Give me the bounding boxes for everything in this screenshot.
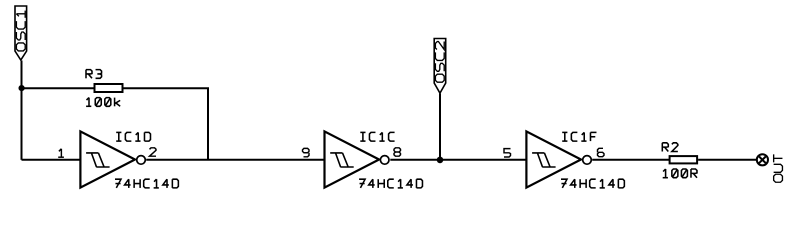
terminal circle [757, 154, 768, 165]
net name text OUT [774, 154, 783, 182]
pin number 6 (output) [598, 148, 605, 156]
inverter IC1D [58, 131, 178, 188]
resistor R3 body [95, 84, 123, 92]
flag outline [434, 39, 446, 94]
name label IC1D [116, 132, 150, 141]
resistor R3 [86, 70, 123, 107]
value label 74HC14D [115, 179, 178, 188]
net flag OSC1 [15, 6, 27, 60]
value label 74HC14D [359, 179, 422, 188]
pin number 8 (output) [394, 148, 401, 156]
terminal X mark [759, 157, 766, 164]
resistor R2 body [670, 156, 698, 163]
net flag OSC2 [434, 39, 446, 94]
pin number 1 (input) [58, 149, 64, 157]
wire OSC1 down to gate row [21, 61, 23, 160]
wire IC1C out to IC1F in [390, 159, 526, 161]
pin number 2 (output) [150, 148, 157, 156]
inverter triangle body [80, 131, 135, 187]
schmitt-trigger hysteresis symbol [86, 153, 110, 167]
name label R3 [86, 70, 102, 79]
inverter output bubble [137, 156, 146, 165]
wire R2 to OUT [698, 159, 757, 161]
inverter triangle body [325, 131, 380, 187]
name label IC1C [360, 132, 394, 141]
inverter triangle body [526, 131, 581, 187]
pin number 5 (input) [504, 149, 511, 157]
inverter output bubble [380, 156, 389, 165]
flag outline [15, 6, 27, 60]
schmitt-trigger hysteresis symbol [532, 153, 556, 167]
junction OSC1 node [19, 85, 25, 91]
name label IC1F [562, 132, 596, 141]
net name text OSC2 [435, 41, 444, 82]
value label 74HC14D [561, 179, 624, 188]
net name text OSC1 [16, 11, 25, 51]
wire IC1D out to IC1C in [146, 159, 324, 161]
wire into IC1D input [22, 159, 81, 161]
pin number 9 (input) [303, 148, 310, 156]
wire R3 to feedback corner [123, 88, 209, 160]
wire OSC1 node to R3 [22, 87, 95, 89]
wire IC1F out to R2 [592, 159, 669, 161]
inverter IC1F [504, 131, 624, 188]
junction OSC2 node [437, 157, 444, 164]
wire OSC2 down to node [439, 94, 441, 160]
schmitt-trigger hysteresis symbol [330, 153, 353, 167]
inverter IC1C [303, 131, 423, 188]
terminal OUT [757, 154, 783, 182]
value label 100R [663, 169, 697, 178]
value label 100k [86, 98, 120, 107]
resistor R2 [662, 143, 697, 178]
name label R2 [662, 143, 678, 152]
inverter output bubble [583, 156, 592, 165]
